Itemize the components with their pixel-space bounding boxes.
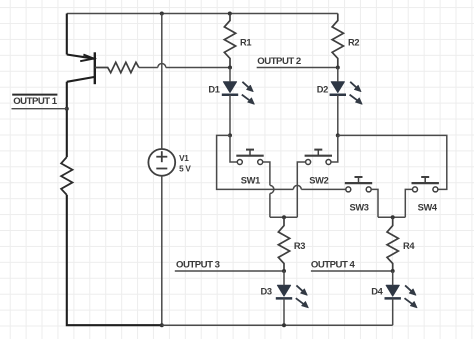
svg-text:V1: V1 <box>179 154 189 163</box>
wire V1 top lead <box>161 14 163 150</box>
LED D1 <box>222 82 255 105</box>
wire collector down (thick) <box>66 82 68 157</box>
svg-text:SW3: SW3 <box>350 203 369 213</box>
wire R4 top row <box>378 216 405 218</box>
svg-text:D4: D4 <box>371 286 383 296</box>
resistor R1 <box>224 14 235 68</box>
svg-text:D2: D2 <box>317 84 328 94</box>
svg-text:OUTPUT 3: OUTPUT 3 <box>176 260 220 271</box>
wire bottom rail <box>162 324 393 326</box>
wire OUTPUT 2 <box>257 67 338 69</box>
svg-text:SW1: SW1 <box>241 175 260 185</box>
OUTPUT 1 net label (active-low overline) <box>12 94 57 96</box>
node D1 cathode split <box>228 133 232 137</box>
wire R3 top row <box>270 216 297 218</box>
node R1/D1/base <box>228 66 232 70</box>
wire SW4 left down <box>405 189 412 217</box>
wire D2 node to SW4 right (top bypass) <box>338 135 447 189</box>
transistor Q1 (PNP) <box>67 52 95 84</box>
resistor R6 (base resistor, unlabeled) <box>95 62 139 72</box>
resistor R5 (left, unlabeled) <box>61 157 72 195</box>
wire OUTPUT 1 stub <box>12 108 67 110</box>
node top rail / V1 <box>160 12 164 16</box>
resistor R2 <box>332 14 343 68</box>
svg-text:R3: R3 <box>294 241 305 251</box>
LED D2 <box>330 82 363 105</box>
node R3 top <box>282 215 286 219</box>
svg-text:R2: R2 <box>348 37 359 47</box>
voltage source V1 5V <box>148 149 175 176</box>
node R2/D2/OUTPUT2 <box>336 66 340 70</box>
wire SW3 right down <box>371 189 378 217</box>
wire V1 bottom lead <box>161 176 163 325</box>
svg-text:OUTPUT 4: OUTPUT 4 <box>311 260 356 271</box>
svg-text:R1: R1 <box>240 37 251 47</box>
node R3/D3/OUTPUT3 <box>282 269 286 273</box>
node V1 bottom rail <box>160 323 164 327</box>
LED D4 <box>385 285 418 308</box>
switch SW3 <box>345 177 372 192</box>
switch SW1 <box>236 150 263 165</box>
wire left column down to bottom rail (thick) <box>67 195 162 325</box>
resistor R4 <box>387 217 398 271</box>
node R1 top <box>228 12 232 16</box>
svg-text:D1: D1 <box>208 84 219 94</box>
node R4/D4/OUTPUT4 <box>391 269 395 273</box>
wire D1 node to SW1 left <box>230 135 237 162</box>
wire SW1 right down with hop over row wire <box>263 162 270 185</box>
node D2 cathode split <box>336 133 340 137</box>
svg-text:5 V: 5 V <box>179 165 191 174</box>
wire bypass D1 node to SW3 left <box>217 135 294 189</box>
svg-text:OUTPUT 2: OUTPUT 2 <box>257 56 301 67</box>
wire D2 leads <box>337 68 339 82</box>
svg-text:R4: R4 <box>403 241 415 251</box>
LED D3 <box>276 285 309 308</box>
resistor R3 <box>278 217 289 271</box>
wire OUTPUT 3 <box>175 270 284 272</box>
svg-text:SW4: SW4 <box>418 203 438 213</box>
switch SW2 <box>305 150 332 165</box>
node R4 top <box>391 215 395 219</box>
wire SW2 left down <box>297 162 305 217</box>
wire base to R1/D1 node with hop over V1 rail <box>139 67 158 69</box>
wire D1 leads <box>229 68 231 82</box>
node D3 bottom rail <box>282 323 286 327</box>
wire SW2 right up <box>331 135 338 162</box>
wire D4 leads <box>392 271 394 285</box>
wire OUTPUT 4 <box>311 270 393 272</box>
wire top rail from top-left corner to R2 <box>67 13 338 15</box>
svg-text:SW2: SW2 <box>309 175 328 185</box>
wire D3 leads <box>283 271 285 285</box>
wire emitter feed (thick) <box>66 14 68 55</box>
switch SW4 <box>412 177 439 192</box>
svg-text:D3: D3 <box>261 286 272 296</box>
node OUTPUT 1 junction <box>65 107 69 111</box>
svg-text:OUTPUT 1: OUTPUT 1 <box>13 96 58 107</box>
